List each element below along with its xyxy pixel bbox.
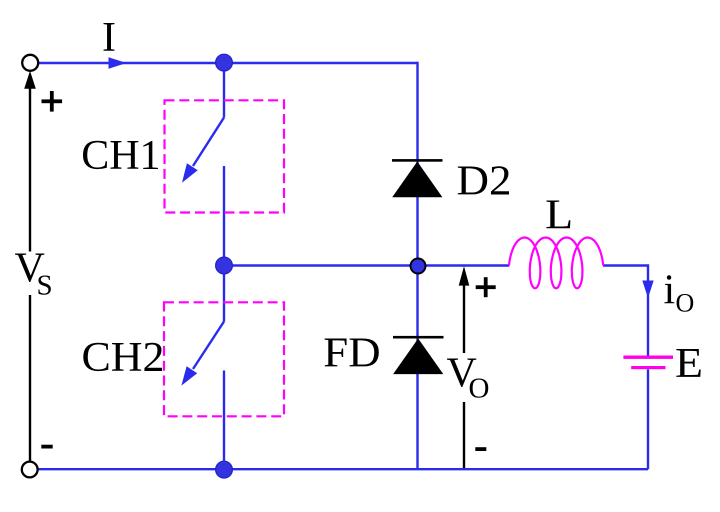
svg-text:CH2: CH2 xyxy=(82,335,165,381)
wire inductor to load corner xyxy=(603,266,648,357)
svg-text:FD: FD xyxy=(323,331,380,377)
chopper CH1 dashed enclosure xyxy=(165,100,285,212)
source arrow up xyxy=(24,71,36,89)
source measurement line lower xyxy=(29,295,31,461)
wire CH1 top lead xyxy=(223,63,225,118)
switch CH2 blade xyxy=(181,322,224,386)
svg-text:I: I xyxy=(102,15,116,61)
node middle-right junction (black ring) xyxy=(411,259,426,274)
wire CH1 lower contact xyxy=(223,166,225,266)
label io xyxy=(664,267,695,317)
minus sign Vo xyxy=(475,447,486,451)
svg-text:E: E xyxy=(675,341,703,387)
label Vs xyxy=(15,246,53,302)
diode FD xyxy=(393,336,444,374)
chopper CH2 dashed enclosure xyxy=(164,302,284,416)
wire middle node to inductor xyxy=(224,264,509,266)
current arrow I xyxy=(109,57,127,68)
svg-text:i: i xyxy=(664,267,676,313)
node middle-left junction xyxy=(216,257,233,274)
minus sign source xyxy=(41,445,52,449)
source measurement line upper xyxy=(29,88,31,252)
node bottom junction xyxy=(216,461,233,478)
svg-text:S: S xyxy=(37,270,53,302)
wire battery to bottom xyxy=(647,369,649,469)
battery E plate long xyxy=(623,356,673,359)
inductor L xyxy=(509,238,603,289)
node top junction xyxy=(216,54,233,71)
svg-text:CH1: CH1 xyxy=(81,133,160,179)
wire top xyxy=(37,62,418,64)
plus sign Vo xyxy=(476,277,496,297)
switch CH1 blade xyxy=(182,118,224,183)
label Vo xyxy=(447,351,490,405)
plus sign source xyxy=(42,91,63,112)
wire CH2 lower contact xyxy=(223,371,225,470)
wire CH2 top lead xyxy=(223,266,225,322)
terminal + (top-left) xyxy=(22,55,38,71)
wire bottom xyxy=(39,468,649,470)
wire right branch vertical (D2/FD leg) xyxy=(416,62,418,469)
battery E plate short xyxy=(631,366,665,369)
svg-text:O: O xyxy=(469,372,490,404)
svg-text:O: O xyxy=(676,288,695,317)
svg-text:L: L xyxy=(545,192,573,238)
diode D2 xyxy=(392,159,443,197)
terminal - (bottom-left) xyxy=(22,462,38,478)
load current arrow io xyxy=(642,281,653,299)
Vo measurement arrow xyxy=(459,266,470,468)
svg-text:D2: D2 xyxy=(457,158,512,204)
